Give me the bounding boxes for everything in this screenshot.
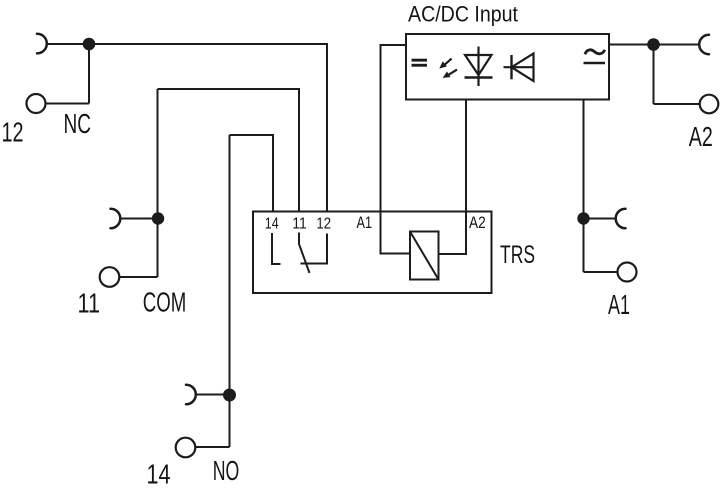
svg-text:NC: NC	[64, 108, 92, 139]
svg-text:11: 11	[78, 288, 101, 319]
svg-text:A2: A2	[689, 121, 713, 152]
svg-text:12: 12	[316, 216, 331, 233]
svg-text:A1: A1	[357, 214, 373, 232]
svg-text:AC/DC Input: AC/DC Input	[408, 1, 518, 26]
svg-text:A2: A2	[469, 214, 486, 232]
svg-text:COM: COM	[143, 287, 187, 318]
svg-text:14: 14	[265, 216, 279, 233]
svg-text:14: 14	[147, 459, 171, 490]
svg-text:11: 11	[292, 216, 307, 233]
svg-text:A1: A1	[608, 289, 630, 320]
svg-text:12: 12	[2, 117, 24, 148]
svg-text:NO: NO	[213, 455, 240, 486]
svg-text:TRS: TRS	[500, 241, 535, 269]
